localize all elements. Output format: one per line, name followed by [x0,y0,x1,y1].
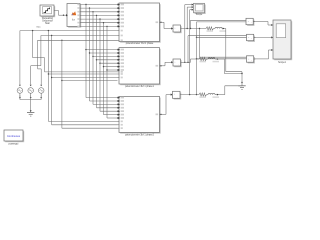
inductor L2 [208,58,215,59]
label potenciometer 3lvl 1 phase1 [125,85,154,88]
voltage measurement VM2 [173,59,182,67]
wire VM2 to Scope in1 [185,4,194,63]
node label Vabc [36,27,40,29]
label Scope1 [278,62,287,64]
inductor L1 [215,27,222,28]
ground G2 [238,86,245,90]
wire drop B to blocks 2,3 [51,35,118,125]
svg-text:Scope: Scope [196,14,203,16]
subsystem potenciometer 3lvl 1 phase (block 1) [118,3,162,43]
wire to ground [30,100,32,113]
wire RSS to fcn [56,11,67,16]
label RL2 [200,61,220,63]
svg-text:Vabc: Vabc [36,27,40,29]
powergui block [4,130,24,142]
svg-text:powergui: powergui [9,142,19,145]
wire bus B [41,35,118,37]
wire fcn out4 to subsystem inputs [80,14,119,108]
svg-text:Stair: Stair [45,22,50,25]
resistor R2 [199,57,207,60]
wire bus C [38,39,118,41]
wire A to Scope1 in1 [253,22,273,27]
wire source common bus [20,95,41,100]
wire drop C to blocks 2,3 [61,40,117,129]
ground G1 [27,113,34,117]
wire B to Scope1 in2 [254,36,273,38]
wire chain1 to VM-C plus [200,29,247,58]
svg-text:Continuous: Continuous [7,134,21,138]
wire VM1 output [181,28,207,29]
svg-text:potenciometer 3lvl 1 phase: potenciometer 3lvl 1 phase [126,42,154,45]
subsystem potenciometer 3lvl 1 phase1 (block 2) [118,48,162,86]
wire chain2 to VM-B plus [188,36,247,63]
wire VM3 to Scope in3 [190,9,194,95]
label Scope [196,14,203,16]
wire bus A [20,30,118,72]
wire ground bus right [241,72,242,86]
voltage measurement VM3 [173,91,182,99]
wire common rail to VM-A minus [197,21,247,23]
scope Scope1 [273,20,292,60]
wire fcn out6 to subsystem inputs [80,22,119,116]
svg-text:potenciometer 3lvl 1 phase1: potenciometer 3lvl 1 phase1 [125,85,154,88]
wire RL3 to ground node [207,86,243,96]
MATLAB Function block U1 [66,4,81,28]
wire block2 output [160,61,174,66]
label potenciometer 3lvl 1 phase [126,42,154,45]
wire common rail to VM-C minus [196,58,247,59]
label Repeating Sequence Stair [42,17,54,25]
wire fcn out5 to subsystem inputs [80,18,119,112]
wire VM1 to Scope in2 [187,6,193,28]
wire VM3 output [180,94,199,95]
wire fcn out7 to subsystem inputs [80,25,119,119]
wire RL2 to ground node [207,58,243,73]
voltage measurement block B [247,34,256,42]
wire fcn out2 to subsystem inputs [80,7,119,102]
AC voltage source Vb [28,36,41,99]
scope Scope [194,3,206,14]
wire chain1 to VM-A plus [191,20,247,28]
svg-text:potenciometer 3lvl 1 phase2: potenciometer 3lvl 1 phase2 [125,134,154,137]
AC voltage source Vc [38,40,44,98]
resistor R3 [199,93,207,96]
voltage measurement block C [247,56,256,64]
AC voltage source Va [17,31,23,99]
label potenciometer 3lvl 1 phase2 [125,134,154,137]
block Repeating Sequence Stair [40,5,56,17]
inductor L3 [208,93,215,94]
label RL1 [207,30,227,32]
subsystem potenciometer 3lvl 1 phase2 (block 3) [118,96,162,133]
voltage measurement VM1 [173,25,182,33]
wire drop A to blocks 2,3 [45,30,118,122]
voltage measurement block A [246,18,255,26]
wire VM2 output [181,59,200,63]
wire fcn out1 to subsystem inputs [80,4,119,99]
svg-text:Scope1: Scope1 [278,62,287,64]
wire common rail vertical [196,22,198,95]
wire RL1 to ground node [214,28,243,72]
label powergui [9,142,19,145]
wire block3 output [160,93,173,115]
wire C to Scope1 in3 [254,49,273,59]
label RL3 [200,96,220,98]
wire fcn out3 to subsystem inputs [80,11,119,106]
wire block1 output [160,22,174,30]
wire common rail to VM-B minus [196,37,247,38]
resistor R1 [206,27,214,30]
